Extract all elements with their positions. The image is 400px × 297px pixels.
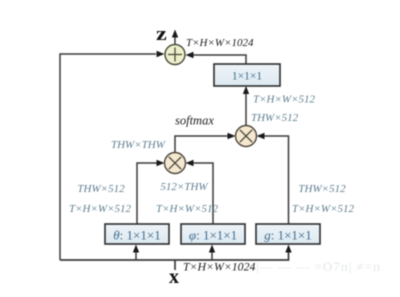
arrowhead into plus left — [157, 51, 165, 57]
wire: bottom bus from x — [60, 252, 289, 260]
wire: branch up to theta box — [135, 252, 137, 260]
svg-text:T×H×W×512: T×H×W×512 — [69, 203, 131, 215]
wire: theta box to left multiply — [137, 163, 157, 224]
box g 1x1x1 — [256, 224, 320, 244]
svg-text:T×H×W×1024: T×H×W×1024 — [183, 260, 255, 274]
svg-text:T×H×W×1024: T×H×W×1024 — [186, 37, 254, 49]
svg-text:T×H×W×512: T×H×W×512 — [292, 203, 354, 215]
box phi 1x1x1 — [181, 224, 245, 244]
wire: phi box to left multiply — [193, 163, 213, 224]
wire: residual connection x to plus — [60, 54, 156, 260]
svg-text:φ: 1×1×1: φ: 1×1×1 — [189, 227, 237, 242]
wire: branch up to phi box — [211, 252, 213, 260]
svg-text:512×THW: 512×THW — [160, 181, 208, 193]
wire: plus to z output — [174, 37, 176, 45]
box theta 1x1x1 — [105, 224, 169, 244]
watermark — [250, 259, 381, 274]
box conv 1x1x1 — [214, 64, 280, 86]
wire: left multiply to right multiply (softmax path) — [175, 136, 228, 153]
wire: 1x1x1 box to plus — [193, 55, 246, 64]
svg-text:1×1×1: 1×1×1 — [232, 71, 262, 83]
svg-text:THW×512: THW×512 — [298, 183, 346, 195]
wire: x input stem — [174, 260, 176, 270]
node multiply left circle — [165, 153, 186, 174]
svg-text:g: 1×1×1: g: 1×1×1 — [264, 227, 312, 242]
svg-text:THW×512: THW×512 — [77, 183, 125, 195]
svg-text:THW×512: THW×512 — [251, 112, 299, 124]
node plus circle — [165, 45, 185, 65]
svg-text:softmax: softmax — [175, 114, 214, 128]
svg-text:з|— — — =О7п| ≠=п: з|— — — =О7п| ≠=п — [250, 259, 381, 274]
svg-text:T×H×W×512: T×H×W×512 — [156, 203, 218, 215]
arrowhead into g box bottom — [285, 245, 291, 253]
svg-text:T×H×W×512: T×H×W×512 — [253, 94, 315, 106]
svg-text:θ: 1×1×1: θ: 1×1×1 — [113, 227, 160, 242]
svg-text:x: x — [169, 266, 179, 288]
node multiply right circle — [236, 126, 257, 147]
svg-text:z: z — [156, 25, 167, 45]
svg-text:THW×THW: THW×THW — [111, 139, 166, 151]
wire: g box to right multiply — [264, 136, 289, 224]
wire: right multiply up to 1x1x1 box — [245, 94, 247, 126]
